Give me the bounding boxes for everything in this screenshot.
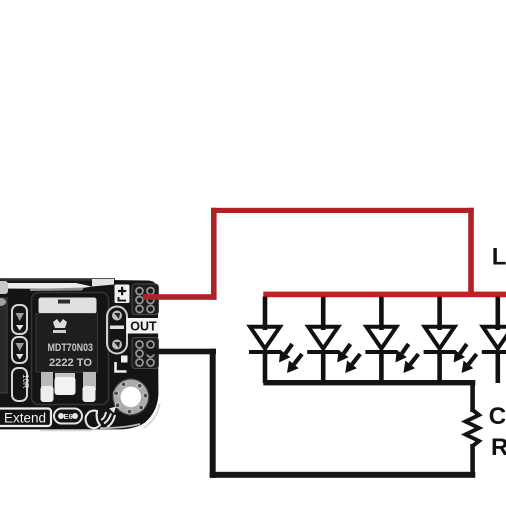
svg-text:LED: LED [492, 243, 506, 270]
svg-text:Extend: Extend [4, 411, 46, 426]
svg-text:Res: Res [491, 434, 506, 461]
svg-text:10R: 10R [21, 374, 30, 389]
svg-text:OUT: OUT [130, 320, 157, 334]
svg-text:Cur: Cur [489, 403, 506, 430]
svg-text:E6: E6 [64, 412, 73, 421]
svg-text:MDT70N03: MDT70N03 [48, 342, 94, 354]
svg-text:2222 TO: 2222 TO [49, 357, 92, 369]
